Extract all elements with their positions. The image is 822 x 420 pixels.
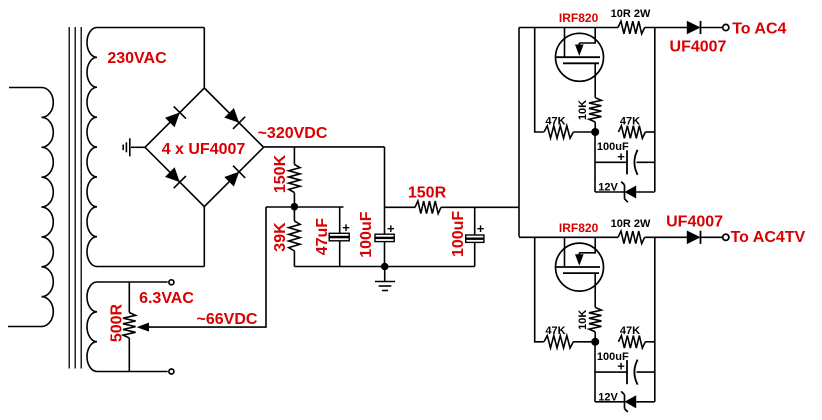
mosfet gate bar bbox=[556, 56, 600, 58]
gate node junction bbox=[591, 338, 599, 346]
resistor 150R bbox=[415, 201, 441, 214]
ground (filter) bbox=[384, 267, 386, 282]
bridge rectifier 4 x UF4007 diamond bbox=[145, 88, 264, 207]
wire filter output to channel rails bbox=[518, 28, 520, 237]
capacitor 100uF second bbox=[474, 207, 476, 235]
svg-text:~66VDC: ~66VDC bbox=[197, 311, 258, 328]
resistor 10R2W bbox=[618, 231, 645, 244]
wire gate feed drop bbox=[535, 237, 544, 341]
svg-text:47K: 47K bbox=[620, 325, 640, 337]
wire bridge negative to ground bbox=[131, 146, 145, 148]
svg-text:39K: 39K bbox=[272, 222, 289, 252]
svg-text:12V: 12V bbox=[598, 391, 618, 403]
svg-text:47K: 47K bbox=[620, 115, 640, 127]
svg-text:47K: 47K bbox=[545, 115, 565, 127]
resistor 47K left bbox=[544, 126, 573, 138]
svg-text:+: + bbox=[477, 221, 485, 236]
bridge diode BL bbox=[165, 167, 180, 182]
diode UF4007 output bbox=[687, 231, 701, 245]
zener diode 12V bbox=[595, 401, 655, 403]
potentiometer 500R bbox=[128, 282, 130, 313]
svg-text:100uF: 100uF bbox=[450, 211, 467, 257]
svg-text:6.3VAC: 6.3VAC bbox=[139, 290, 194, 307]
transformer T1 core bbox=[68, 27, 70, 369]
mosfet gate lead bbox=[564, 237, 566, 267]
capacitor 47uF bbox=[339, 207, 341, 233]
wire right rail bbox=[654, 28, 656, 193]
node A junction bbox=[291, 203, 299, 211]
wire 230VAC bottom lead bbox=[97, 266, 204, 268]
wire channel top rail bbox=[519, 27, 618, 29]
svg-text:47K: 47K bbox=[545, 325, 565, 337]
diode UF4007 output bbox=[687, 21, 701, 35]
wire 320VDC rail bbox=[264, 146, 385, 148]
terminal 6.3VAC bottom bbox=[169, 369, 174, 374]
mosfet gate lead bbox=[564, 28, 566, 58]
svg-text:47uF: 47uF bbox=[314, 218, 331, 256]
wire 6.3VAC top lead bbox=[97, 281, 168, 283]
transformer secondary 6.3VAC winding bbox=[87, 282, 97, 371]
svg-text:UF4007: UF4007 bbox=[670, 38, 727, 55]
svg-text:+: + bbox=[617, 149, 625, 164]
bridge diode TR bbox=[224, 108, 239, 123]
resistor 10R2W bbox=[618, 21, 645, 34]
svg-text:+: + bbox=[342, 220, 350, 235]
wire gate node down bbox=[594, 132, 596, 192]
wire right rail bbox=[654, 237, 656, 401]
svg-text:To AC4: To AC4 bbox=[732, 21, 786, 38]
wire bridge AC bottom bbox=[203, 207, 205, 267]
wire gate feed drop bbox=[535, 28, 544, 133]
svg-text:150K: 150K bbox=[272, 154, 289, 193]
svg-text:10R 2W: 10R 2W bbox=[611, 8, 651, 20]
svg-text:IRF820: IRF820 bbox=[559, 11, 599, 25]
wire wiper to node A (~66VDC) bbox=[149, 207, 266, 327]
ground (bridge, sideways) bbox=[129, 138, 131, 156]
terminal output bbox=[723, 24, 729, 30]
potentiometer 500R wiper arrow bbox=[137, 323, 149, 332]
zener diode 12V bbox=[595, 191, 655, 193]
bridge diode BR bbox=[224, 172, 239, 187]
mosfet body arrow bbox=[575, 45, 584, 57]
svg-text:4 x UF4007: 4 x UF4007 bbox=[162, 141, 246, 158]
resistor 47K right bbox=[618, 336, 645, 349]
svg-text:+: + bbox=[387, 221, 395, 236]
capacitor 100uF first bbox=[384, 147, 386, 234]
wire gate node down bbox=[594, 342, 596, 402]
resistor 150K bbox=[293, 147, 295, 165]
svg-text:500R: 500R bbox=[108, 303, 125, 342]
mosfet source lead bbox=[594, 273, 596, 307]
wire 150R rail bbox=[385, 206, 416, 208]
terminal 6.3VAC top bbox=[169, 280, 174, 285]
wire channel top rail bbox=[519, 236, 618, 238]
wire ground rail bbox=[294, 266, 474, 268]
resistor 47K left bbox=[544, 336, 573, 348]
bridge diode TL bbox=[165, 113, 180, 128]
mosfet drain lead bbox=[579, 28, 595, 44]
mosfet body arrow bbox=[575, 254, 584, 265]
gate node junction bbox=[591, 128, 599, 136]
svg-text:IRF820: IRF820 bbox=[559, 221, 599, 235]
resistor 10K bbox=[589, 307, 601, 331]
mosfet IRF820 body bbox=[556, 243, 604, 291]
wire 230VAC top lead bbox=[97, 27, 204, 29]
transformer primary winding bbox=[9, 87, 53, 326]
wire node A rail bbox=[266, 206, 344, 208]
svg-text:12V: 12V bbox=[598, 182, 618, 194]
transformer secondary 230VAC winding bbox=[87, 27, 97, 266]
mosfet channel bar bbox=[563, 62, 599, 64]
resistor 10K bbox=[589, 98, 601, 122]
mosfet IRF820 body bbox=[556, 33, 604, 81]
wire bridge AC top bbox=[203, 28, 205, 89]
mosfet source lead bbox=[594, 63, 596, 97]
svg-text:UF4007: UF4007 bbox=[666, 214, 723, 231]
mosfet drain lead bbox=[579, 237, 595, 253]
capacitor 100uF channel bbox=[595, 371, 627, 373]
mosfet gate bar bbox=[556, 266, 600, 268]
svg-text:230VAC: 230VAC bbox=[107, 50, 167, 67]
capacitor 100uF channel bbox=[595, 161, 627, 163]
svg-text:100uF: 100uF bbox=[358, 211, 375, 257]
svg-text:+: + bbox=[617, 359, 625, 374]
svg-text:~320VDC: ~320VDC bbox=[258, 125, 328, 142]
ground junction bbox=[381, 263, 389, 271]
svg-text:10R 2W: 10R 2W bbox=[611, 218, 651, 230]
resistor 39K bbox=[289, 221, 300, 251]
terminal output bbox=[723, 234, 729, 240]
resistor 47K right bbox=[618, 126, 645, 139]
mosfet channel bar bbox=[563, 272, 599, 274]
wire 6.3VAC bottom lead bbox=[97, 371, 168, 373]
svg-text:150R: 150R bbox=[408, 185, 447, 202]
svg-text:10K: 10K bbox=[577, 100, 589, 120]
svg-text:10K: 10K bbox=[577, 310, 589, 330]
svg-text:To AC4TV: To AC4TV bbox=[731, 229, 806, 246]
